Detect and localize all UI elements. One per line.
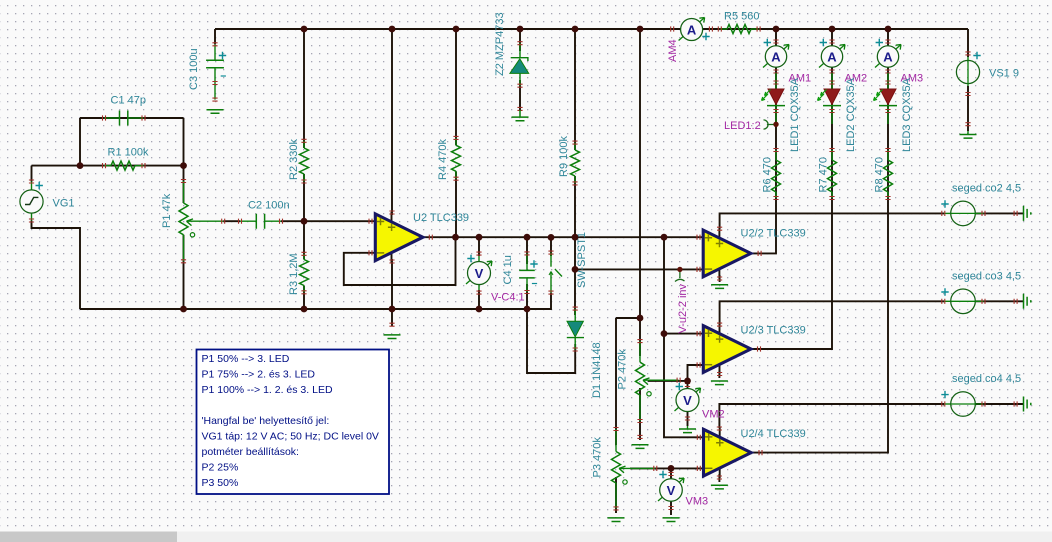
potentiometer P2: [639, 341, 641, 362]
wire C4 column: [526, 237, 528, 264]
svg-text:C2 100n: C2 100n: [248, 200, 290, 212]
svg-text:U2 TLC339: U2 TLC339: [413, 212, 469, 224]
svg-text:V-C4:1: V-C4:1: [491, 292, 525, 304]
wire VM2 node to U2/3 inverting input: [688, 365, 704, 381]
svg-text:R5 560: R5 560: [724, 11, 759, 23]
source seged co4: [944, 403, 951, 405]
svg-text:R9 100k: R9 100k: [558, 136, 570, 177]
ground VM3: [663, 518, 680, 522]
zener diode Z2: [519, 43, 521, 58]
scrollbar track: [0, 532, 1052, 542]
resistor R6: [775, 150, 777, 160]
op-amp U2/2 TLC339: [718, 228, 720, 279]
svg-text:SW-SPST1: SW-SPST1: [576, 232, 588, 288]
svg-text:A: A: [883, 49, 893, 64]
ground P2: [632, 445, 649, 449]
wire R4 column: [455, 29, 457, 145]
wire C2 to node: [281, 220, 375, 222]
voltmeter V-C4: [478, 256, 480, 262]
svg-text:P1 50% --> 3. LED: P1 50% --> 3. LED: [202, 353, 290, 365]
svg-text:R4 470k: R4 470k: [437, 139, 449, 180]
wire U2/4 bottom pin: [718, 474, 720, 482]
wire R3 column: [303, 221, 305, 259]
ground U2: [384, 335, 401, 339]
source VG1: [31, 182, 33, 191]
wire P3 wiper to VM3 node: [630, 467, 704, 469]
wire U2 feedback loop: [344, 237, 456, 285]
source seged co3: [944, 300, 951, 302]
ground seged co2: [1024, 206, 1031, 221]
resistor R9: [574, 143, 576, 150]
wire VM2 stub: [687, 381, 689, 389]
scrollbar thumb: [0, 532, 177, 542]
capacitor C1: [104, 117, 120, 119]
wire U2/3 bottom pin: [718, 371, 720, 379]
svg-text:seged co4 4,5: seged co4 4,5: [952, 373, 1021, 385]
svg-text:VM3: VM3: [686, 496, 709, 508]
svg-text:A: A: [771, 49, 781, 64]
wire U2/4 output to LED3 column: [751, 29, 888, 453]
source VS1: [967, 57, 969, 60]
op-amp U2/4 TLC339: [719, 427, 721, 478]
svg-text:V: V: [667, 483, 676, 498]
svg-text:R1 100k: R1 100k: [108, 147, 149, 159]
wire VS1 branch: [967, 29, 969, 57]
wire U2/2 top pin to seged co2: [720, 213, 944, 229]
wire seged co4 right to ground: [975, 403, 1023, 405]
wire U2 ground stub: [391, 309, 393, 326]
svg-text:P3 50%: P3 50%: [202, 477, 239, 489]
wire P2 bottom to ground: [639, 388, 641, 440]
wire seged co2 right to ground: [975, 212, 1023, 214]
svg-text:LED3 CQX35A: LED3 CQX35A: [901, 77, 913, 152]
svg-text:P2 470k: P2 470k: [617, 349, 629, 390]
wire top 12V rail: [215, 28, 968, 30]
wire Z2 column: [519, 29, 521, 51]
ground VS1: [960, 135, 977, 139]
resistor R5: [720, 28, 727, 30]
ground C3: [207, 110, 224, 114]
svg-text:P1 100% --> 1. 2. és 3. LED: P1 100% --> 1. 2. és 3. LED: [202, 384, 333, 396]
svg-text:C4 1u: C4 1u: [502, 255, 514, 284]
resistor R3: [303, 254, 305, 260]
wire U2/3 top pin to seged co3: [720, 301, 944, 325]
junction dots: [77, 162, 84, 169]
resistor R8: [887, 150, 889, 160]
svg-text:D1 1N4148: D1 1N4148: [591, 342, 603, 398]
wire U2 bottom supply pin to rail: [391, 259, 393, 309]
resistor R7: [831, 150, 833, 160]
ammeter AM3: [875, 45, 901, 68]
svg-text:A: A: [827, 49, 837, 64]
resistor R2: [303, 141, 305, 148]
wire U2 top supply pin: [391, 29, 393, 215]
voltmeter VM3: [658, 478, 684, 501]
annotation text box: [197, 350, 390, 495]
ammeter AM1: [763, 45, 789, 68]
wire VS1 to ground: [967, 86, 969, 131]
wire P1 wiper to C2: [223, 220, 240, 222]
wire U2/4 top pin to seged co4: [719, 404, 944, 428]
wire VG1 bottom return: [32, 221, 81, 310]
svg-text:Z2 MZP4733: Z2 MZP4733: [494, 12, 506, 76]
ground seged co3: [1024, 294, 1031, 309]
svg-text:C3 100u: C3 100u: [188, 48, 200, 90]
wire D1 column: [574, 237, 576, 315]
ground Z2: [512, 117, 529, 121]
wire R9 column: [574, 29, 576, 150]
wire seged co3 right to ground: [975, 300, 1023, 302]
diode D1 1N4148: [574, 309, 576, 322]
capacitor C3: [214, 44, 216, 60]
node V-u2-2 inv marker: [675, 271, 685, 282]
svg-text:seged co2 4,5: seged co2 4,5: [952, 183, 1021, 195]
svg-text:P1 75% --> 2. és 3. LED: P1 75% --> 2. és 3. LED: [202, 369, 316, 381]
voltmeter VM2: [675, 388, 701, 411]
wire D1 bottom loop to C4 node: [527, 309, 575, 373]
svg-text:R7 470: R7 470: [818, 157, 830, 192]
wire C1 left vertical: [79, 118, 81, 166]
capacitor C2: [240, 220, 256, 222]
wire P3 bottom to ground: [615, 477, 617, 513]
svg-text:R6 470: R6 470: [762, 157, 774, 192]
node LED1:2 marker: [764, 120, 776, 129]
svg-text:VG1 táp: 12 V AC; 50 Hz; DC le: VG1 táp: 12 V AC; 50 Hz; DC level 0V: [202, 431, 379, 443]
wire P2 wiper to VM2 node: [648, 380, 688, 382]
svg-text:seged co3 4,5: seged co3 4,5: [952, 271, 1021, 283]
wire VG1 top: [32, 165, 81, 167]
op-amp U2/3 TLC339: [719, 324, 721, 375]
svg-text:C1 47p: C1 47p: [111, 95, 146, 107]
svg-text:R2 330k: R2 330k: [288, 139, 300, 180]
svg-text:R8 470: R8 470: [874, 157, 886, 192]
svg-text:P3 470k: P3 470k: [592, 437, 604, 478]
LED1 CQX35A: [775, 73, 777, 89]
wire U2/2 output to LED1 column: [751, 29, 776, 253]
svg-text:U2/4 TLC339: U2/4 TLC339: [741, 428, 806, 440]
svg-text:LED1:2: LED1:2: [724, 120, 761, 132]
LED3 CQX35A: [887, 73, 889, 89]
svg-text:V: V: [475, 266, 484, 281]
svg-text:VS1 9: VS1 9: [989, 68, 1019, 80]
svg-text:LED2 CQX35A: LED2 CQX35A: [845, 77, 857, 152]
resistor R1: [104, 165, 111, 167]
svg-text:P1 47k: P1 47k: [161, 193, 173, 228]
resistor R4: [455, 138, 457, 145]
wire switch top: [550, 237, 552, 256]
wire U2/2 bottom pin: [719, 275, 721, 282]
ground U2/2: [711, 285, 728, 289]
potentiometer P3: [615, 429, 617, 452]
wire U2/3 noninverting input: [664, 333, 703, 335]
wire R1 node row: [80, 165, 184, 167]
wire C1 right vertical: [183, 118, 185, 166]
ground seged co4: [1024, 397, 1031, 412]
wire U2/2 inverting input row: [575, 268, 703, 270]
wire P2 column: [639, 29, 641, 356]
LED2 CQX35A: [831, 73, 833, 89]
switch SW-SPST1: [550, 253, 552, 267]
ground P3: [608, 518, 625, 522]
svg-text:LED1 CQX35A: LED1 CQX35A: [789, 77, 801, 152]
wire U2 output rail: [423, 236, 703, 238]
wire comparator input column: [664, 237, 704, 437]
ammeter AM4: [679, 18, 705, 41]
svg-text:V: V: [683, 393, 692, 408]
svg-text:P2 25%: P2 25%: [202, 462, 239, 474]
ground U2/4: [711, 485, 728, 489]
svg-text:U2/2 TLC339: U2/2 TLC339: [741, 228, 806, 240]
ammeter AM2: [819, 45, 845, 68]
wire P1 column: [183, 166, 185, 203]
wire P2-P3 link: [616, 317, 640, 319]
wire U2/3 output to LED2 column: [752, 29, 832, 349]
svg-text:A: A: [687, 22, 697, 37]
svg-text:VG1: VG1: [53, 198, 75, 210]
ground VM2: [679, 429, 696, 433]
wire C1 top horizontal: [80, 117, 184, 119]
ground U2/3: [711, 381, 728, 385]
capacitor C4: [526, 253, 528, 270]
wire R2 column: [303, 29, 305, 148]
wire V-C4 column: [478, 237, 480, 256]
svg-text:V-u2-2 inv: V-u2-2 inv: [677, 283, 689, 333]
svg-text:'Hangfal be' helyettesítő jel:: 'Hangfal be' helyettesítő jel:: [202, 415, 330, 427]
potentiometer P1: [183, 181, 185, 203]
svg-text:AM4: AM4: [667, 39, 679, 62]
wire bottom ground rail: [80, 293, 551, 309]
svg-text:potméter beállítások:: potméter beállítások:: [202, 446, 299, 458]
svg-text:VM2: VM2: [702, 409, 725, 421]
source seged co2: [944, 212, 951, 214]
wire VM3 stub: [670, 468, 672, 478]
svg-text:R3 1,2M: R3 1,2M: [288, 253, 300, 295]
svg-text:U2/3 TLC339: U2/3 TLC339: [741, 325, 806, 337]
op-amp U2: [391, 212, 393, 263]
